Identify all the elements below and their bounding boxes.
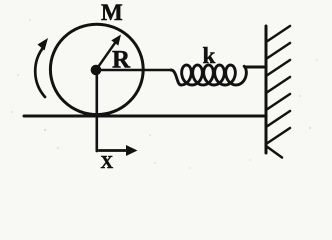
rotation arrow arc <box>35 47 45 98</box>
wall <box>265 26 268 153</box>
wall hatch 8 (reversed) <box>266 146 282 158</box>
svg-text:R: R <box>112 47 131 74</box>
disk M (circle) <box>50 24 143 114</box>
rotation arrowhead <box>38 38 49 51</box>
wall hatch 5 <box>266 94 290 110</box>
wire: rod from disk center to spring <box>97 69 172 72</box>
wall hatch 2 <box>266 43 290 59</box>
wire: spring to wall <box>245 66 266 69</box>
svg-text:M: M <box>101 0 123 25</box>
wall hatch 6 <box>266 111 290 127</box>
x arrowhead <box>126 145 138 156</box>
radius arrow line R <box>96 42 116 71</box>
spring k <box>171 65 246 85</box>
wall hatch 7 <box>266 128 290 144</box>
wall hatch 1 <box>266 26 290 42</box>
paper speckles <box>11 19 318 169</box>
wall hatch 4 <box>266 77 290 93</box>
x axis arrow line <box>99 149 128 152</box>
svg-text:X: X <box>101 152 114 172</box>
vertical axis line through disk center <box>96 70 99 151</box>
svg-text:k: k <box>203 43 216 68</box>
wall hatch 3 <box>266 60 290 76</box>
ground line <box>24 115 266 118</box>
center dot <box>91 65 102 76</box>
radius arrowhead <box>111 35 121 46</box>
